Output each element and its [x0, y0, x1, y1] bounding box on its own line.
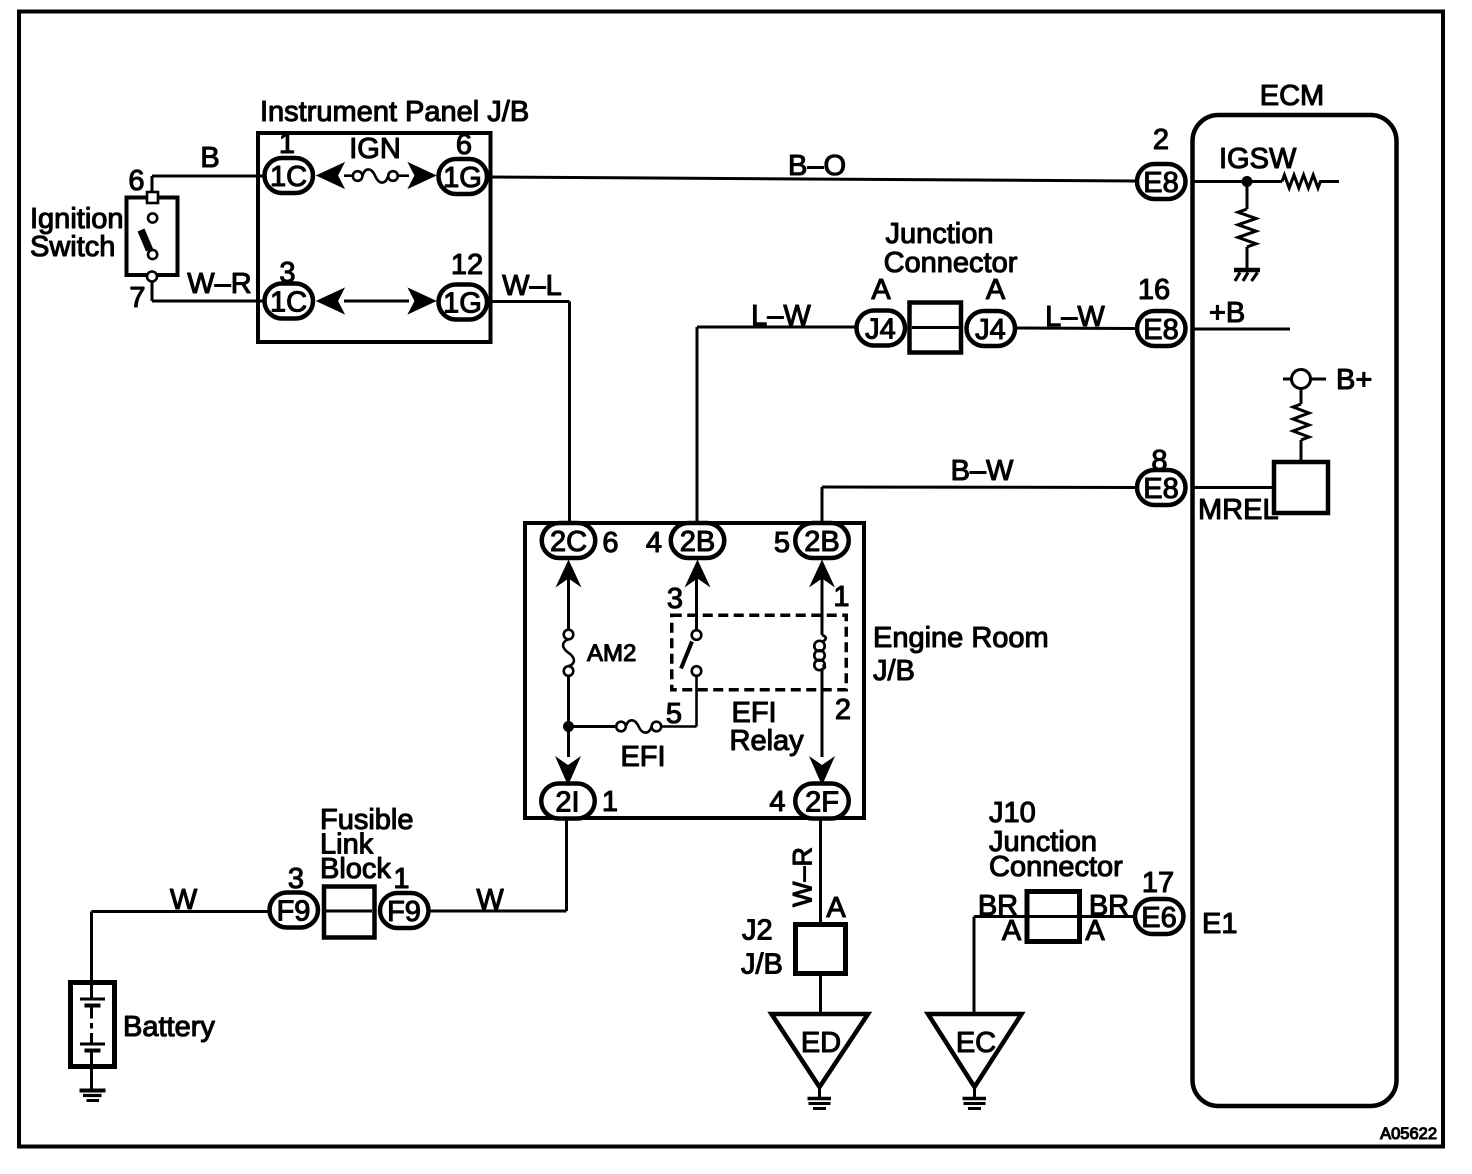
- wire B-O from 1G to ECM E8 pin2: [489, 177, 1135, 181]
- svg-text:3: 3: [279, 257, 295, 289]
- wire EC to J10: [974, 917, 1026, 1015]
- svg-text:Battery: Battery: [123, 1011, 215, 1043]
- svg-text:6: 6: [128, 165, 144, 197]
- relay switch: [681, 578, 701, 676]
- MREL driver box: [1274, 462, 1328, 513]
- svg-text:3: 3: [288, 863, 304, 895]
- svg-text:IGN: IGN: [349, 133, 401, 165]
- connector 2C: [542, 523, 619, 559]
- arrow right row1: [409, 163, 436, 188]
- wire IGSW internal: [1192, 180, 1282, 183]
- svg-text:B–O: B–O: [788, 150, 846, 182]
- svg-text:4: 4: [646, 527, 662, 559]
- svg-text:2B: 2B: [804, 526, 839, 558]
- W wire right of F9: [430, 820, 567, 911]
- connector 1C pin1: [265, 128, 314, 193]
- connector 1G pin12: [439, 249, 488, 320]
- svg-text:W–L: W–L: [502, 270, 562, 302]
- svg-text:B+: B+: [1336, 364, 1372, 396]
- wire pin7 to 1C: [152, 282, 263, 302]
- J10 box: [1027, 892, 1080, 942]
- arrow down 2F: [809, 756, 835, 786]
- svg-text:W–R: W–R: [788, 847, 818, 907]
- svg-text:5: 5: [774, 527, 790, 559]
- node dot IGSW junction: [1242, 176, 1253, 187]
- svg-text:6: 6: [456, 129, 472, 161]
- connector E8 pin2: [1137, 124, 1186, 199]
- svg-text:1G: 1G: [443, 288, 482, 320]
- svg-text:E6: E6: [1141, 902, 1176, 934]
- svg-text:J4: J4: [865, 314, 896, 346]
- svg-text:16: 16: [1138, 274, 1170, 306]
- svg-text:1: 1: [279, 128, 295, 160]
- svg-text:B–W: B–W: [951, 455, 1014, 487]
- resistor IGSW horizontal: [1282, 175, 1339, 188]
- wire J10 to E6: [1079, 915, 1133, 918]
- fusible link block box: [324, 887, 375, 938]
- connector F9 pin3: [270, 863, 319, 928]
- svg-text:1G: 1G: [443, 162, 482, 194]
- svg-text:1: 1: [833, 581, 849, 613]
- wire pin6 to 1C: [152, 176, 263, 192]
- wire J2 to ED: [819, 974, 822, 1015]
- +B wire: [1192, 328, 1290, 331]
- resistor to ground: [1238, 182, 1256, 269]
- svg-text:2: 2: [1153, 124, 1169, 156]
- wire L-W right segment: [1015, 327, 1135, 331]
- svg-text:2I: 2I: [555, 787, 579, 819]
- svg-text:J4: J4: [975, 314, 1006, 346]
- svg-text:L–W: L–W: [1045, 301, 1105, 333]
- svg-text:12: 12: [451, 249, 483, 281]
- connector 2B pin5: [774, 523, 849, 559]
- svg-text:ECM: ECM: [1260, 80, 1324, 112]
- svg-text:A05622: A05622: [1380, 1125, 1437, 1143]
- arrow right row2: [409, 289, 436, 314]
- svg-text:4: 4: [769, 786, 785, 818]
- arrow left row2: [317, 289, 344, 314]
- battery W wire: [92, 912, 269, 981]
- connector 2B pin4: [646, 523, 724, 559]
- svg-text:AM2: AM2: [587, 640, 636, 667]
- wire AM2 to 2I: [567, 676, 570, 757]
- connector 1G pin6: [439, 129, 488, 194]
- svg-text:Switch: Switch: [30, 231, 115, 263]
- ground EC: [928, 1014, 1022, 1087]
- connector E8 pin16: [1137, 274, 1186, 346]
- svg-text:EC: EC: [956, 1027, 996, 1059]
- connector E8 pin8: [1137, 445, 1186, 505]
- svg-text:3: 3: [667, 583, 683, 615]
- wire 2F to J2: [819, 820, 822, 924]
- svg-text:1C: 1C: [270, 287, 307, 319]
- connector J4 right: [967, 274, 1016, 346]
- svg-text:7: 7: [129, 282, 145, 314]
- svg-text:W: W: [170, 884, 198, 916]
- arrow down 2I: [555, 756, 581, 786]
- relay coil: [814, 578, 825, 757]
- svg-text:6: 6: [602, 527, 618, 559]
- ECM box: [1193, 115, 1397, 1106]
- connector 2I: [541, 784, 618, 819]
- arrow up 2C: [556, 560, 582, 588]
- svg-text:A: A: [1085, 915, 1105, 947]
- svg-text:L–W: L–W: [751, 300, 811, 332]
- svg-text:J10: J10: [989, 797, 1036, 829]
- svg-text:J2: J2: [742, 915, 773, 947]
- svg-text:E1: E1: [1202, 908, 1237, 940]
- svg-text:E8: E8: [1143, 473, 1178, 505]
- svg-text:17: 17: [1142, 867, 1174, 899]
- svg-text:Block: Block: [320, 853, 391, 885]
- fuse AM2: [563, 630, 574, 676]
- battery: [71, 982, 115, 1089]
- J2 J/B box: [796, 925, 846, 974]
- svg-text:8: 8: [1151, 445, 1167, 477]
- svg-text:J/B: J/B: [873, 655, 915, 687]
- svg-text:Instrument Panel J/B: Instrument Panel J/B: [260, 96, 529, 128]
- svg-text:EFI: EFI: [620, 741, 665, 773]
- svg-text:IGSW: IGSW: [1219, 143, 1297, 175]
- svg-text:E8: E8: [1143, 314, 1178, 346]
- svg-text:B: B: [200, 142, 219, 174]
- svg-text:W: W: [476, 884, 504, 916]
- fuse IGN: [344, 169, 409, 182]
- battery ground: [80, 1091, 106, 1101]
- fuse EFI: [616, 676, 696, 733]
- wire L-W left segment: [697, 327, 855, 523]
- svg-text:2: 2: [835, 694, 851, 726]
- Engine Room J/B box: [525, 523, 864, 818]
- svg-text:Relay: Relay: [730, 725, 805, 757]
- svg-text:A: A: [1002, 915, 1022, 947]
- svg-text:2B: 2B: [680, 526, 715, 558]
- svg-text:A: A: [871, 274, 891, 306]
- svg-text:1: 1: [393, 863, 409, 895]
- B-W wire: [822, 487, 1135, 523]
- connector 1C pin3: [265, 257, 314, 319]
- arrow up 2B5: [809, 560, 835, 588]
- svg-text:2F: 2F: [805, 787, 839, 819]
- connector E6 pin17: [1135, 867, 1184, 934]
- wire row2: [344, 300, 409, 303]
- resistor B+: [1293, 404, 1309, 440]
- svg-text:J/B: J/B: [741, 949, 783, 981]
- svg-text:MREL: MREL: [1198, 494, 1279, 526]
- Instrument Panel J/B box: [258, 133, 491, 342]
- svg-text:A: A: [986, 274, 1006, 306]
- svg-text:W–R: W–R: [187, 268, 251, 300]
- MREL wire: [1192, 486, 1272, 489]
- connector J4 left: [857, 274, 906, 346]
- svg-text:+B: +B: [1209, 297, 1245, 329]
- svg-text:5: 5: [666, 698, 682, 730]
- svg-text:Junction: Junction: [885, 218, 993, 250]
- svg-text:1C: 1C: [270, 161, 307, 193]
- wire dot to EFI fuse: [569, 725, 617, 728]
- ground ED: [772, 1014, 869, 1087]
- svg-text:E8: E8: [1143, 167, 1178, 199]
- arrow left row1: [317, 163, 344, 188]
- svg-text:1: 1: [602, 786, 618, 818]
- ground (ECM internal): [1234, 270, 1260, 281]
- junction connector box: [910, 303, 962, 353]
- wire 2C to AM2: [567, 578, 570, 630]
- connector 2F: [769, 784, 848, 819]
- arrow up 2B4: [685, 560, 711, 588]
- svg-text:F9: F9: [277, 896, 311, 928]
- svg-text:F9: F9: [387, 896, 421, 928]
- ignition switch: [127, 192, 178, 282]
- node dot EFI branch: [563, 721, 574, 732]
- B+ terminal: [1283, 370, 1326, 462]
- svg-text:Connector: Connector: [989, 851, 1123, 883]
- connector F9 pin1: [380, 863, 429, 928]
- svg-text:2C: 2C: [550, 526, 587, 558]
- svg-text:Engine Room: Engine Room: [873, 622, 1049, 654]
- svg-text:A: A: [826, 892, 846, 924]
- EFI relay dashed box: [672, 615, 847, 690]
- wire W-L vertical to 2C: [489, 302, 570, 524]
- svg-text:ED: ED: [801, 1027, 841, 1059]
